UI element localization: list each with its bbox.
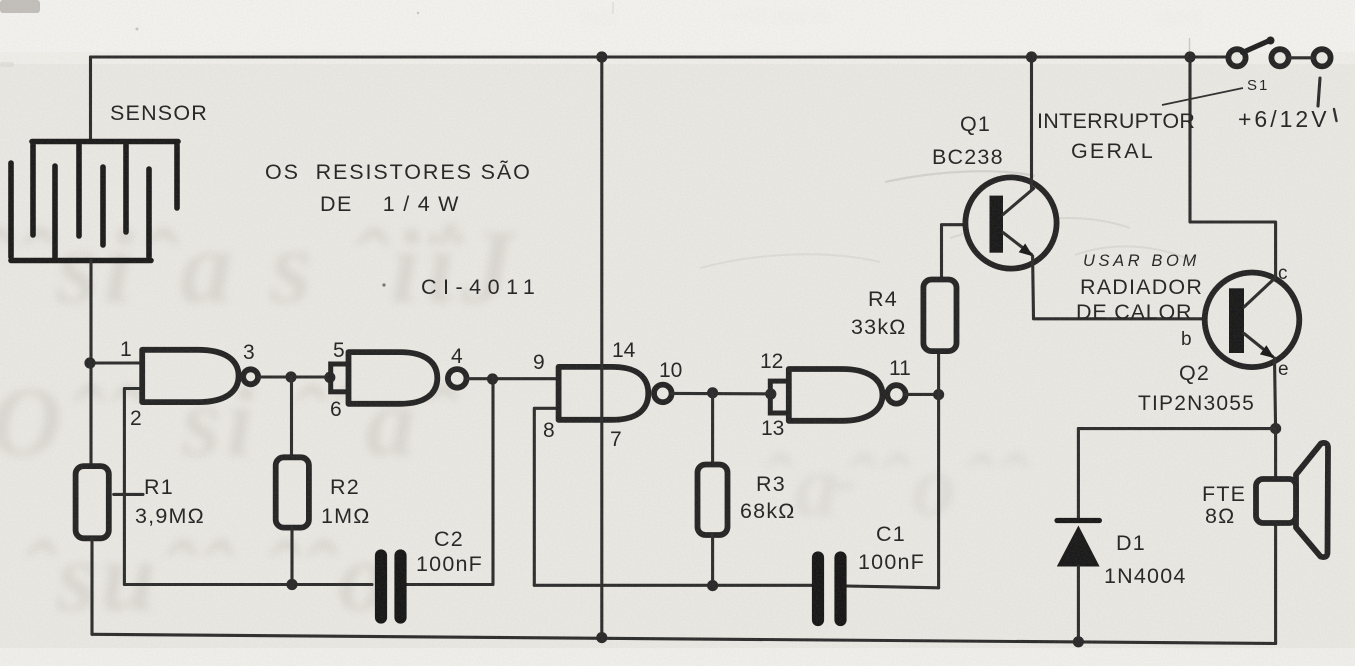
- svg-text:b: b: [1181, 329, 1192, 350]
- svg-text:8Ω: 8Ω: [1205, 504, 1235, 528]
- wire D1 bottom lead: [1077, 566, 1080, 642]
- svg-text:68kΩ: 68kΩ: [740, 499, 796, 523]
- node bottom rail center: [596, 632, 607, 643]
- R1 label tick: [114, 493, 143, 496]
- svg-text:13: 13: [761, 417, 784, 440]
- capacitor C2: [381, 556, 401, 618]
- nand gate U1d: [789, 369, 883, 421]
- nand gate U1b: [349, 352, 438, 404]
- svg-text:10: 10: [659, 359, 682, 382]
- resistor R2: [276, 457, 309, 527]
- svg-text:11: 11: [889, 357, 911, 380]
- wire gate2 out to gate3 in: [467, 377, 559, 380]
- wire C2 right horizontal up to node 4: [406, 379, 493, 585]
- wire Q1 collector to rail: [1030, 57, 1033, 190]
- wire gate3 out to gate4 in: [672, 392, 771, 395]
- sensor: [11, 142, 178, 261]
- wire sensor to R1: [89, 261, 92, 467]
- svg-text:C2: C2: [434, 527, 464, 551]
- wire bottom rail: [92, 634, 1276, 643]
- svg-text:c: c: [1278, 263, 1288, 284]
- svg-text:TIP2N3055: TIP2N3055: [1138, 392, 1255, 415]
- svg-text:░░░░░: ░░░░░: [1155, 10, 1201, 26]
- svg-text:CI-4011: CI-4011: [421, 275, 541, 299]
- svg-text:SENSOR: SENSOR: [110, 101, 208, 125]
- nand gate U1c: [559, 367, 649, 420]
- wire Q2 collector to rail: [1190, 57, 1276, 278]
- wire S1 +V lead: [1318, 78, 1320, 106]
- svg-text:3,9MΩ: 3,9MΩ: [135, 504, 205, 528]
- capacitor C1: [818, 558, 841, 621]
- gate U1d input bracket: [770, 381, 789, 413]
- wire gate4 out to R4 branch: [906, 393, 939, 396]
- resistor R1: [76, 466, 109, 538]
- wire pin1 input: [90, 361, 142, 364]
- node 4 junction: [487, 373, 498, 384]
- svg-text:INTERRUPTOR: INTERRUPTOR: [1037, 109, 1195, 133]
- speaker FTE cone: [1296, 443, 1328, 557]
- svg-text:D1: D1: [1116, 531, 1146, 555]
- resistor R3: [698, 465, 728, 536]
- svg-text:33kΩ: 33kΩ: [851, 315, 907, 339]
- wire R3 top lead: [711, 393, 714, 466]
- svg-text:R3: R3: [756, 472, 786, 496]
- svg-text:S1: S1: [1247, 77, 1269, 94]
- svg-text:14: 14: [612, 339, 636, 362]
- svg-text:1N4004: 1N4004: [1104, 564, 1187, 588]
- svg-text:2: 2: [130, 407, 142, 430]
- svg-text:8: 8: [543, 419, 555, 442]
- svg-text:4: 4: [451, 345, 463, 368]
- node gate4 input junction: [765, 388, 776, 399]
- wire C1 right to R4 node: [846, 586, 939, 588]
- svg-text:GERAL: GERAL: [1071, 139, 1155, 163]
- svg-text:7: 7: [610, 428, 622, 451]
- wire center vertical pin14-pin7: [600, 57, 603, 638]
- node pin1 junction: [84, 357, 95, 368]
- node R2 bottom junction: [286, 579, 297, 590]
- svg-text:R2: R2: [330, 475, 360, 499]
- wire pin2 feedback loop: [124, 389, 142, 585]
- gate U1a output bubble: [243, 369, 258, 384]
- switch S1: [1228, 37, 1330, 67]
- wire D1 branch horizontal: [1078, 427, 1275, 430]
- gate U1b input bracket: [331, 364, 349, 392]
- S1 callout line: [1162, 88, 1243, 105]
- resistor R4: [923, 280, 956, 352]
- svg-text:USAR BOM: USAR BOM: [1083, 252, 1200, 270]
- svg-text:○ ○░░░ ░░░░ ░░: ○ ○░░░ ░░░░ ░░: [720, 8, 829, 24]
- svg-text:Q1: Q1: [960, 112, 991, 136]
- svg-text:BC238: BC238: [932, 145, 1004, 169]
- +6/12V tick: [1334, 109, 1337, 121]
- svg-text:OS RESISTORES SÃO: OS RESISTORES SÃO: [265, 159, 532, 184]
- svg-text:5: 5: [333, 339, 345, 362]
- wire R1 to bottom rail: [90, 538, 93, 634]
- node Q2 collector rail junction: [1184, 51, 1195, 62]
- transistor Q2: [1205, 273, 1300, 368]
- svg-text:9: 9: [533, 351, 545, 374]
- wire R2 top lead: [290, 377, 293, 457]
- svg-text:6: 6: [330, 398, 342, 421]
- gate U1b output bubble: [448, 369, 467, 388]
- node 10 junction: [707, 387, 718, 398]
- transistor Q1: [965, 177, 1056, 268]
- svg-text:12: 12: [760, 350, 783, 373]
- svg-text:e: e: [1278, 359, 1289, 380]
- gate U1c output bubble: [654, 385, 672, 403]
- svg-text:1: 1: [120, 338, 132, 361]
- svg-text:100nF: 100nF: [858, 550, 925, 574]
- wire D1 top lead: [1077, 429, 1080, 521]
- svg-text:Q2: Q2: [1179, 361, 1210, 385]
- speaker FTE box: [1256, 479, 1296, 523]
- wire R4 vertical branch: [939, 225, 990, 588]
- svg-text:100nF: 100nF: [416, 552, 483, 576]
- node emitter-D1 junction: [1270, 423, 1281, 434]
- wire C2 left horizontal: [124, 583, 372, 586]
- svg-text:DE 1/4W: DE 1/4W: [320, 192, 467, 216]
- svg-text:DE CALOR: DE CALOR: [1076, 300, 1192, 324]
- node 11 junction: [933, 389, 944, 400]
- svg-text:+6/12V: +6/12V: [1238, 106, 1330, 132]
- gate U1d output bubble: [887, 385, 905, 403]
- svg-text:░░░░: ░░░░: [580, 10, 617, 26]
- wire segment B to C1: [534, 584, 813, 587]
- node 3-R2 junction: [285, 371, 296, 382]
- node D1 bottom rail junction: [1073, 636, 1084, 647]
- svg-text:FTE: FTE: [1202, 482, 1246, 506]
- svg-text:1MΩ: 1MΩ: [321, 504, 371, 528]
- wire emitter to bottom rail (behind speaker): [1274, 429, 1277, 644]
- wire Q2 emitter down: [1275, 358, 1276, 429]
- node R3 bottom junction: [707, 580, 718, 591]
- node top rail center: [596, 51, 607, 62]
- wire R3 bottom lead: [711, 535, 714, 586]
- svg-text:R1: R1: [144, 475, 174, 499]
- wire top rail: [91, 55, 1229, 58]
- svg-text:RADIADOR: RADIADOR: [1080, 275, 1203, 299]
- wire Q1 emitter to Q2 base: [1033, 256, 1229, 319]
- svg-text:ˆa̵ˆˆoˆˆ: ˆa̵ˆˆoˆˆ: [760, 438, 1030, 535]
- wire R2 bottom lead: [290, 528, 293, 585]
- wire left vertical (top rail to sensor): [89, 57, 92, 142]
- svg-text:C1: C1: [876, 522, 906, 546]
- nand gate U1a: [142, 350, 238, 402]
- svg-text:R4: R4: [868, 287, 898, 311]
- svg-text:3: 3: [243, 341, 255, 364]
- wire pin8 feedback loop: [534, 408, 558, 585]
- node gate2 input junction: [324, 372, 335, 383]
- wire gate1 out to gate2 in: [258, 375, 330, 378]
- node Q1 collector rail junction: [1026, 51, 1037, 62]
- diode D1: [1057, 521, 1100, 567]
